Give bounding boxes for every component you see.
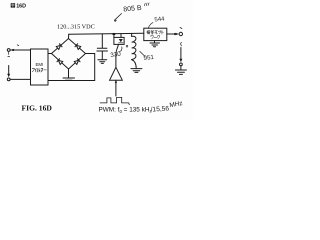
winding dot [126, 45, 128, 47]
output arrow right [167, 33, 177, 35]
figure label 图 (drawn glyph) [11, 3, 15, 7]
prime ticks [144, 3, 149, 6]
junction below driver [115, 81, 117, 83]
driver triangle [110, 67, 123, 80]
svg-text:PWM: f0 = 135 kHz: PWM: f0 = 135 kHz [99, 107, 153, 114]
調整ネット (drawn strokes) [147, 30, 163, 34]
bridge right corner wire [86, 54, 95, 81]
leader 330 [120, 47, 122, 52]
output down arrow [180, 48, 182, 60]
svg-text:16D: 16D [16, 4, 26, 10]
output ground [180, 66, 182, 70]
leader 951 [140, 51, 145, 56]
bulk capacitor [101, 34, 103, 48]
input terminal bottom [7, 78, 10, 81]
wire box to bridge left [48, 53, 52, 55]
wire switch to driver [116, 44, 119, 67]
PWM waveform [100, 97, 129, 104]
transformer winding 951 [131, 33, 133, 36]
svg-text:951: 951 [143, 54, 155, 62]
wire top input [10, 49, 30, 51]
ワーク (drawn strokes) [151, 36, 160, 39]
winding ground [131, 69, 142, 73]
EMI filter box [31, 49, 49, 85]
leader 544 [148, 23, 153, 29]
small hook under output terminal [180, 43, 183, 46]
input terminal top [7, 49, 10, 52]
adjust box ground [154, 41, 156, 43]
output terminal [179, 32, 182, 35]
top riser [68, 34, 70, 38]
diode upper-left [56, 44, 62, 50]
switch 330 box [113, 34, 115, 37]
diode inside [119, 39, 123, 42]
tick above terminal [17, 44, 19, 47]
diode lower-right [74, 59, 80, 65]
lower terminal [180, 63, 183, 66]
bridge ground [68, 69, 70, 78]
tick above output [180, 28, 182, 29]
bottom rail [48, 80, 95, 82]
diode upper-right [75, 44, 81, 50]
diode lower-left [57, 59, 63, 65]
svg-text:544: 544 [154, 16, 165, 23]
svg-text:120...315 VDC: 120...315 VDC [57, 24, 95, 31]
junction dot [112, 33, 115, 35]
top rail [69, 32, 144, 35]
svg-text:805 B: 805 B [123, 5, 142, 14]
adjust network box [144, 28, 167, 40]
small marks under terminal [8, 52, 10, 57]
capacitor ground [98, 60, 107, 64]
wire bottom input [10, 78, 30, 80]
svg-text:MHz: MHz [169, 100, 183, 109]
annotation arrow [115, 14, 122, 21]
フィルター (drawn strokes) [32, 68, 46, 72]
svg-text:EMI: EMI [35, 62, 43, 67]
bridge diamond [52, 39, 86, 70]
svg-text:FIG. 16D: FIG. 16D [22, 103, 53, 112]
input down arrow [8, 66, 10, 76]
svg-text:/15,56: /15,56 [150, 105, 169, 113]
wire driver to pwm [115, 80, 117, 96]
